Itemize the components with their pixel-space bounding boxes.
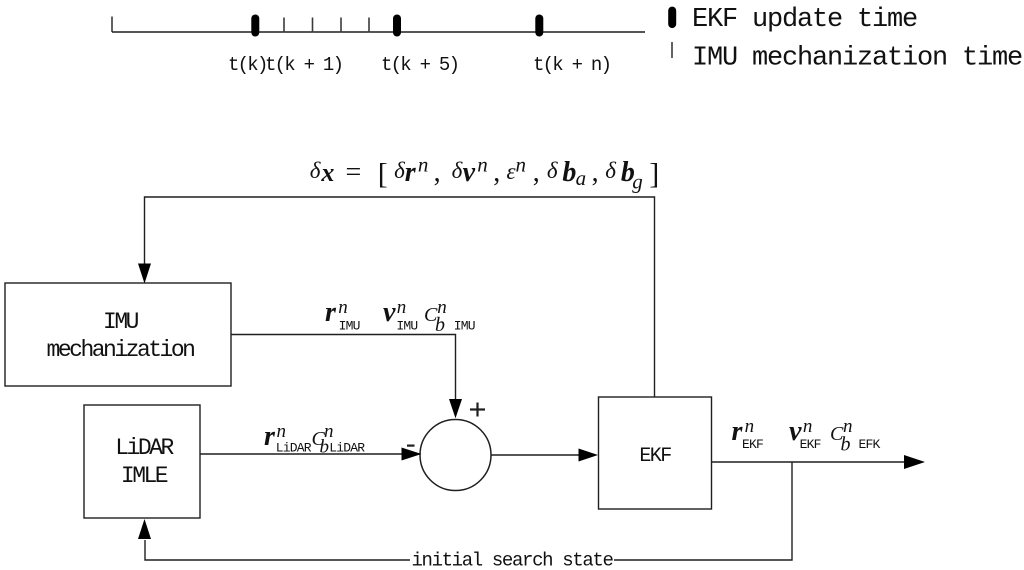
svg-text:EKF update time: EKF update time — [692, 5, 917, 35]
svg-text:t(k + n): t(k + n) — [533, 54, 610, 76]
svg-text:=: = — [346, 157, 362, 188]
svg-text:n: n — [277, 421, 287, 442]
svg-text:EKF: EKF — [742, 437, 763, 452]
svg-text:a: a — [576, 166, 587, 190]
svg-text:t(k + 1): t(k + 1) — [265, 54, 342, 76]
svg-text:b: b — [320, 437, 330, 458]
svg-text:b: b — [841, 434, 851, 456]
svg-text:EFK: EFK — [859, 437, 881, 452]
svg-text:b: b — [562, 157, 576, 188]
svg-text:IMLE: IMLE — [121, 463, 168, 489]
svg-text:LiDAR: LiDAR — [329, 441, 365, 456]
svg-text:IMU: IMU — [103, 309, 139, 335]
svg-text:δ: δ — [452, 158, 463, 183]
svg-text:[: [ — [378, 158, 388, 191]
svg-text:r: r — [325, 297, 337, 328]
svg-text:b: b — [435, 314, 445, 336]
svg-text:]: ] — [649, 158, 659, 191]
svg-text:r: r — [405, 157, 417, 188]
svg-text:t(k + 5): t(k + 5) — [381, 54, 458, 76]
svg-text:r: r — [264, 421, 276, 452]
svg-text:n: n — [745, 416, 755, 437]
svg-text:δ: δ — [394, 158, 405, 183]
svg-text:v: v — [383, 297, 396, 328]
svg-text:LiDAR: LiDAR — [115, 435, 174, 461]
svg-text:IMU mechanization time: IMU mechanization time — [692, 44, 1022, 74]
svg-text:δ: δ — [310, 158, 321, 183]
svg-text:n: n — [397, 297, 407, 318]
svg-text:EKF: EKF — [639, 445, 671, 468]
svg-text:IMU: IMU — [396, 318, 417, 333]
svg-text:n: n — [516, 153, 527, 177]
svg-text:IMU: IMU — [454, 318, 475, 333]
svg-text:,: , — [533, 157, 540, 188]
svg-text:,: , — [434, 157, 441, 188]
svg-text:n: n — [477, 153, 488, 177]
svg-text:g: g — [632, 170, 643, 194]
svg-text:initial search state: initial search state — [411, 550, 613, 570]
svg-text:t(k): t(k) — [228, 54, 267, 76]
svg-text:IMU: IMU — [339, 318, 360, 333]
svg-text:mechanization: mechanization — [47, 337, 195, 363]
svg-text:δ: δ — [547, 158, 558, 183]
svg-text:δ: δ — [605, 158, 616, 183]
svg-text:v: v — [463, 157, 476, 188]
svg-text:,: , — [592, 157, 599, 188]
svg-text:n: n — [803, 416, 813, 437]
svg-text:,: , — [493, 157, 500, 188]
svg-text:EKF: EKF — [800, 437, 821, 452]
svg-text:x: x — [320, 158, 334, 187]
svg-text:n: n — [418, 153, 429, 177]
svg-text:LiDAR: LiDAR — [276, 441, 312, 456]
svg-text:n: n — [338, 297, 348, 318]
